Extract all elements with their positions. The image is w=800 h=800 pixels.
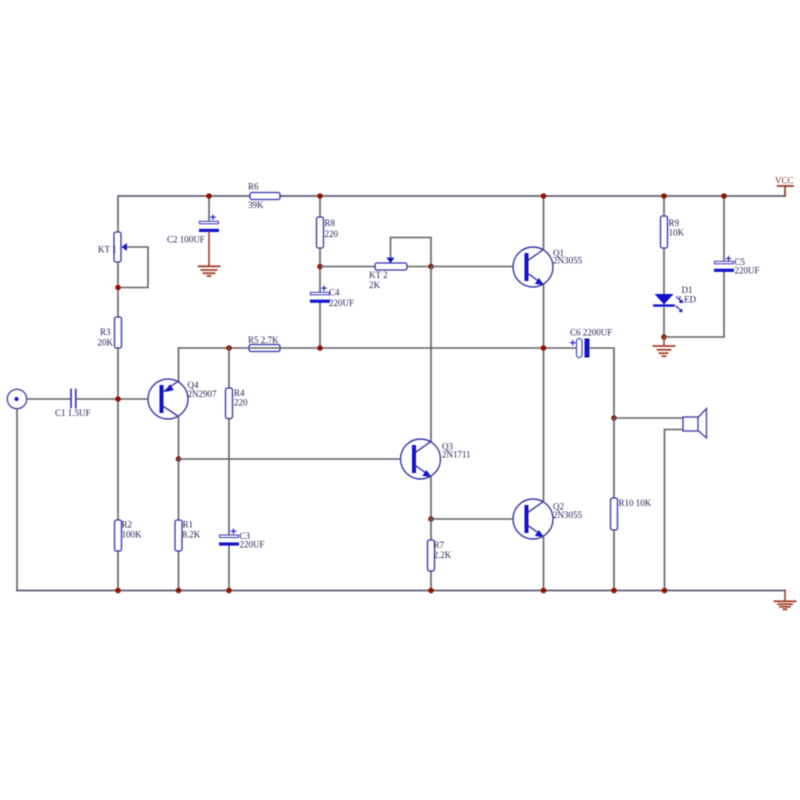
capacitor C4 [310,286,354,308]
resistor R9 [661,216,685,248]
junction KT2 left node [317,264,323,270]
svg-text:100K: 100K [122,530,143,540]
junction C2 top [206,193,212,199]
wire R4 column [228,348,230,591]
wire Q2 emitter down [543,537,545,591]
svg-text:R9: R9 [669,218,680,228]
junction bottom rail speaker [662,588,668,594]
junction bottom rail R2 [115,588,121,594]
resistor R4 [226,388,249,419]
wire Q4 collector down [178,417,180,460]
wire C5 branch [723,196,725,337]
capacitor C3 [219,529,265,550]
junction C6 left node [541,345,547,351]
svg-text:VCC: VCC [775,176,794,186]
diode D1 LED [654,285,696,312]
resistor R7 [428,540,452,571]
resistor R8 [317,217,339,248]
svg-text:C1 1.5UF: C1 1.5UF [55,408,91,418]
svg-text:220UF: 220UF [329,298,354,308]
transistor Q2 2N3055 [513,499,582,539]
svg-text:10K: 10K [669,228,685,238]
wire speaker return [665,430,684,591]
junction Q4 collector node [176,456,182,462]
wire C1 to Q4 base [78,398,160,400]
svg-text:KT 2: KT 2 [369,270,388,280]
transistor Q1 2N3055 [513,247,582,287]
svg-text:20K: 20K [98,338,114,348]
speaker LS1 [683,409,707,439]
wire speaker top lead [614,417,683,419]
transistor Q4 2N2907 [148,379,217,419]
junction C5 top [721,193,727,199]
wire left column [117,196,119,591]
svg-text:220: 220 [234,398,248,408]
wire C2 branch [208,196,210,221]
wire input to C1 [27,398,70,400]
wire C6 right to speaker node [590,348,615,418]
wire R9 branch [663,196,665,337]
svg-text:2N3055: 2N3055 [553,256,582,266]
wire Q2 collector up [543,348,545,502]
junction R8 top [317,193,323,199]
svg-text:C6 2200UF: C6 2200UF [570,328,612,338]
svg-text:R5 2.7K: R5 2.7K [248,335,279,345]
wire KT2 left [320,266,375,268]
wire Q3 emitter down [430,477,432,520]
wire Q1 collector up [543,196,545,250]
VCC power symbol [775,176,794,197]
input connector J1 [7,389,26,408]
wire R7 column [430,519,432,591]
junction input node [115,396,121,402]
wire bottom-right ground stem [784,591,786,601]
wire R1 column [178,459,180,591]
junction Q3 emitter node [428,516,434,522]
svg-text:R1: R1 [183,520,194,530]
ground (C2) [199,266,220,276]
transistor Q3 2N1711 [401,439,471,479]
svg-text:220: 220 [325,229,339,239]
svg-text:R8: R8 [325,218,336,228]
potentiometer KT1 [98,232,127,262]
svg-text:8.2K: 8.2K [183,530,201,540]
svg-text:R10 10K: R10 10K [619,498,652,508]
wire bottom rail (ground bus) [17,590,785,592]
junction bottom rail R7 [428,588,434,594]
ground (bottom right) [775,601,796,609]
svg-text:D1: D1 [682,285,693,295]
svg-text:2N1711: 2N1711 [442,450,471,460]
resistor R2 [115,520,143,552]
wire KT2 node down to Q3 collector [430,267,432,442]
svg-text:C4: C4 [329,288,340,298]
junction KT2 output node [428,264,434,270]
capacitor C5 [714,256,760,275]
wire Q1 emitter down [543,285,545,349]
junction R9 top [661,193,667,199]
resistor R3 [98,317,122,348]
svg-text:2K: 2K [369,280,381,290]
svg-text:R4: R4 [234,388,245,398]
wire C2 to ground [208,232,210,266]
svg-text:KT 1: KT 1 [98,245,117,255]
potentiometer KT2 [369,258,407,291]
junction speaker node [611,415,617,421]
wire D1 node to C5 [664,336,724,338]
svg-text:2N3055: 2N3055 [553,510,582,520]
svg-text:39K: 39K [248,200,264,210]
junction bottom rail R1 [176,588,182,594]
wire KT1 wiper loop [118,247,148,288]
svg-text:220UF: 220UF [735,266,760,276]
wire D1 ground stem [663,337,665,345]
junction C4 bottom [317,345,323,351]
wire input drop (shield) [16,409,18,591]
capacitor C2 [167,215,219,245]
junction D1 ground node [661,334,667,340]
resistor R10 [611,498,652,530]
capacitor C6 [570,328,612,358]
resistor R6 [248,182,280,211]
junction bottom rail R10 [611,588,617,594]
wire KT2 node to Q1 base [431,266,525,268]
resistor R5 [248,335,280,352]
svg-text:R6: R6 [248,182,259,192]
wire Q4 collector to Q3 base [179,458,413,460]
wire feedback row y348 [179,347,577,349]
wire R8 branch [319,196,321,348]
junction KT1 wiper node [115,285,121,291]
svg-text:220UF: 220UF [240,540,265,550]
wire R10 column [613,418,615,591]
svg-text:LED: LED [679,295,697,305]
svg-text:R7: R7 [434,540,445,550]
wire Q3 emitter to Q2 base [431,518,525,520]
junction Q1 collector top [541,193,547,199]
svg-text:R3: R3 [100,327,111,337]
resistor R1 [175,520,201,552]
junction R4 top [226,345,232,351]
wire top rail VCC [119,195,786,197]
ground (D1) [654,346,675,356]
wire KT2 right + wiper loop [391,238,432,267]
wire Q4 emitter riser [178,348,180,381]
svg-text:C2 100UF: C2 100UF [167,235,205,245]
svg-text:2.2K: 2.2K [434,550,452,560]
junction bottom rail C3 [226,588,232,594]
junction bottom rail Q2 emitter [541,588,547,594]
svg-text:2N2907: 2N2907 [188,389,217,399]
svg-text:R2: R2 [122,520,133,530]
capacitor C1 [55,390,91,419]
